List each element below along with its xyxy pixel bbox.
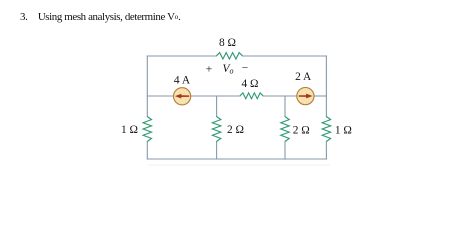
svg-text:1 Ω: 1 Ω bbox=[121, 124, 138, 136]
resistor 8ohm zigzag bbox=[216, 53, 242, 59]
svg-text:8 Ω: 8 Ω bbox=[219, 37, 236, 49]
wire middle 3 bbox=[263, 95, 297, 97]
wire top right segment bbox=[242, 55, 326, 57]
wire right vertical upper bbox=[325, 56, 327, 117]
svg-text:4 A: 4 A bbox=[174, 74, 191, 86]
resistor 2ohm first zigzag bbox=[212, 117, 220, 142]
wire middle 2 bbox=[191, 95, 240, 97]
wire branch C upper bbox=[284, 96, 286, 117]
wire middle 1 bbox=[147, 95, 173, 97]
wire top left segment bbox=[147, 55, 216, 57]
wire branch B lower bbox=[216, 142, 218, 160]
wire left vertical lower bbox=[146, 142, 148, 160]
faint page line bbox=[148, 164, 330, 166]
wire bottom bbox=[147, 158, 326, 160]
current source I2 2A circle bbox=[297, 88, 314, 105]
title bbox=[20, 11, 181, 23]
svg-text:4 Ω: 4 Ω bbox=[241, 78, 258, 90]
svg-text:Vo: Vo bbox=[223, 63, 234, 76]
current source I1 arrow left bbox=[175, 94, 189, 99]
current source I1 4A circle bbox=[174, 88, 191, 105]
wire right vertical lower bbox=[325, 142, 327, 160]
current source I2 arrow right bbox=[299, 94, 313, 99]
wire branch C lower bbox=[284, 142, 286, 160]
svg-text:1 Ω: 1 Ω bbox=[335, 124, 352, 136]
svg-text:2 Ω: 2 Ω bbox=[293, 124, 310, 136]
svg-text:2 A: 2 A bbox=[295, 71, 312, 83]
wire branch B upper bbox=[216, 96, 218, 117]
wire left vertical upper bbox=[146, 56, 148, 117]
svg-text:−: − bbox=[242, 63, 248, 75]
svg-text:+: + bbox=[206, 64, 212, 76]
resistor 4ohm zigzag bbox=[240, 93, 263, 99]
resistor 2ohm second zigzag bbox=[281, 117, 289, 142]
svg-text:2 Ω: 2 Ω bbox=[227, 124, 244, 136]
resistor 1ohm left zigzag bbox=[143, 117, 151, 142]
wire middle 4 bbox=[314, 95, 326, 97]
resistor 1ohm right zigzag bbox=[322, 117, 330, 142]
